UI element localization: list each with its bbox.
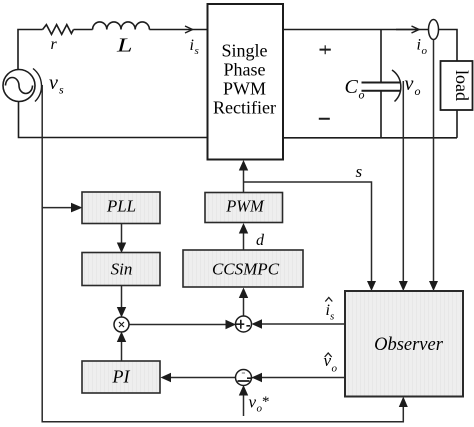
svg-text:*: *	[262, 394, 270, 410]
svg-text:o: o	[422, 45, 428, 57]
svg-text:o: o	[332, 363, 338, 375]
svg-text:Sin: Sin	[111, 260, 133, 279]
svg-text:o: o	[415, 84, 421, 98]
svg-text:s: s	[356, 162, 363, 181]
svg-text:s: s	[330, 311, 334, 323]
svg-text:i: i	[190, 37, 194, 54]
svg-text:Single: Single	[221, 41, 267, 61]
svg-text:PWM: PWM	[223, 79, 266, 99]
svg-text:C: C	[345, 76, 359, 98]
svg-text:s: s	[59, 83, 64, 97]
svg-text:Rectifier: Rectifier	[213, 98, 276, 118]
svg-text:v: v	[49, 72, 58, 94]
svg-text:r: r	[51, 36, 58, 53]
svg-text:PWM: PWM	[225, 197, 265, 216]
svg-text:L: L	[116, 35, 133, 57]
svg-text:v: v	[405, 73, 414, 95]
svg-text:v: v	[249, 393, 257, 412]
svg-text:Observer: Observer	[374, 335, 444, 355]
svg-text:CCSMPC: CCSMPC	[212, 260, 280, 279]
svg-text:s: s	[195, 45, 199, 57]
svg-text:o: o	[359, 88, 365, 102]
svg-text:i: i	[417, 37, 421, 54]
svg-text:d: d	[256, 232, 265, 249]
svg-text:load: load	[452, 70, 472, 101]
svg-text:Phase: Phase	[224, 60, 266, 80]
svg-text:PLL: PLL	[106, 197, 136, 216]
svg-text:PI: PI	[112, 367, 131, 387]
